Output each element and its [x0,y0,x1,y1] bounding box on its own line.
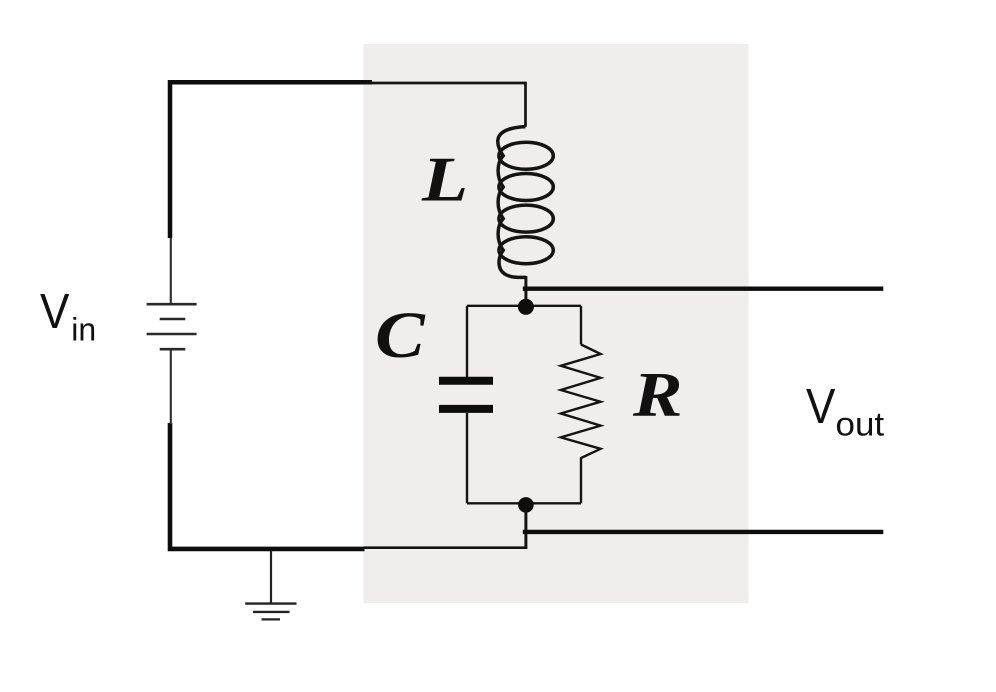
svg-text:in: in [71,312,96,348]
svg-text:R: R [632,360,683,429]
svg-text:out: out [836,406,885,443]
svg-text:V: V [40,284,69,339]
svg-text:L: L [421,145,468,215]
svg-text:V: V [806,379,835,434]
svg-text:C: C [375,299,426,372]
